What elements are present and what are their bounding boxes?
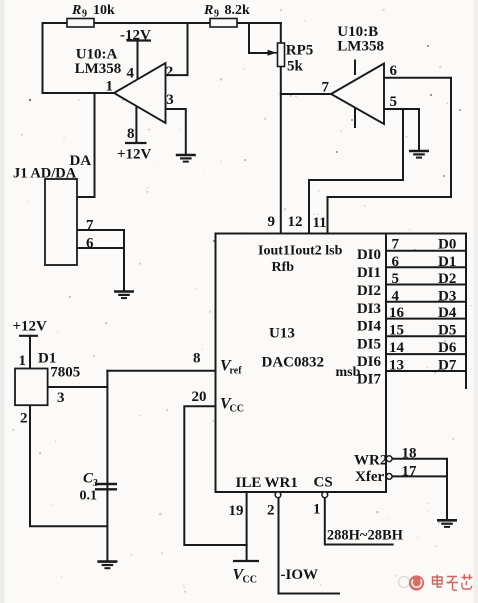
wire U10:A pin2 to rail — [166, 23, 188, 75]
svg-text:msb: msb — [336, 365, 361, 380]
op-amp U10:B triangle — [331, 64, 384, 125]
svg-text:12: 12 — [288, 214, 303, 230]
wire top rail R9s — [43, 22, 281, 24]
svg-text:2: 2 — [267, 503, 275, 519]
wire data row line 8 — [386, 370, 466, 372]
svg-text:ref: ref — [230, 366, 243, 377]
label Vcc pin20 — [220, 396, 244, 415]
wire +12V to 7805 pin1 — [29, 336, 31, 369]
wire RP5 stem top — [280, 23, 282, 43]
potentiometer RP5 body — [278, 43, 285, 67]
svg-text:4: 4 — [127, 66, 135, 82]
wire data row line 4 — [386, 301, 466, 303]
label C3 — [83, 471, 98, 490]
svg-text:DI0: DI0 — [357, 247, 381, 263]
svg-text:DI2: DI2 — [357, 283, 381, 299]
svg-text:5k: 5k — [287, 59, 304, 75]
svg-text:DI1: DI1 — [357, 265, 381, 281]
svg-text:6: 6 — [392, 254, 400, 270]
wire data row line 1 — [386, 250, 466, 252]
wire DA drop — [77, 93, 95, 197]
pin bubble WR2 — [386, 456, 392, 462]
wire U10:A pin3 — [166, 109, 186, 155]
wire C3 branch to ground — [106, 371, 108, 562]
wire DAC WR2 pin18 — [392, 459, 447, 520]
svg-text:Rfb: Rfb — [272, 260, 295, 275]
svg-text:15: 15 — [389, 323, 404, 339]
wire Vref to DAC pin8 — [107, 370, 215, 372]
svg-text:J1 AD/DA: J1 AD/DA — [13, 166, 77, 182]
op-amp U10:A triangle — [114, 63, 166, 123]
wire 7805 pin2 — [30, 405, 107, 526]
wire 7805 pin3 — [48, 386, 108, 388]
svg-text:CC: CC — [230, 404, 244, 415]
power +12V bar (op-amp) — [125, 142, 147, 144]
svg-text:20: 20 — [192, 389, 207, 405]
svg-text:6: 6 — [86, 236, 94, 252]
svg-text:+12V: +12V — [117, 147, 152, 163]
svg-text:DI4: DI4 — [357, 318, 382, 334]
wire data row line 6 — [386, 335, 466, 337]
watermark logo — [399, 575, 425, 590]
wire DAC Xfer pin17 — [392, 475, 447, 477]
DAC U13 body — [216, 234, 387, 493]
svg-text:D5: D5 — [438, 323, 456, 339]
svg-text:7805: 7805 — [50, 365, 80, 381]
wire data row line 5 — [386, 318, 466, 320]
svg-text:LM358: LM358 — [337, 39, 384, 55]
svg-text:CS: CS — [314, 475, 333, 491]
label VCC bottom — [233, 567, 257, 586]
svg-text:19: 19 — [229, 503, 244, 519]
svg-text:DI7: DI7 — [357, 371, 382, 387]
wire data row line 7 — [386, 353, 466, 355]
svg-text:1: 1 — [313, 502, 321, 518]
svg-text:D6: D6 — [438, 340, 457, 356]
svg-text:+12V: +12V — [13, 319, 48, 335]
label R9 8.2k — [203, 3, 250, 20]
svg-text:U13: U13 — [269, 326, 295, 342]
wire J1 pin7 — [77, 229, 124, 231]
ground under C3 — [97, 562, 117, 569]
svg-text:5: 5 — [392, 271, 400, 287]
svg-text:9: 9 — [214, 9, 219, 20]
resistor R9 10k body — [67, 19, 94, 28]
svg-text:7: 7 — [86, 218, 94, 234]
ground under U10:B pin5 — [409, 151, 429, 158]
svg-text:3: 3 — [93, 478, 98, 489]
wire J1 pins to ground — [123, 230, 125, 291]
svg-text:6: 6 — [390, 63, 398, 79]
wire DAC WR1 pin2 to IOW — [279, 498, 340, 594]
wire U10:A pin4 — [137, 41, 139, 80]
svg-text:ILE: ILE — [236, 475, 262, 491]
ground WR2/Xfer — [437, 520, 457, 527]
wire data row line 2 — [386, 266, 466, 268]
label R9 10k — [71, 3, 115, 20]
svg-text:1: 1 — [19, 353, 27, 369]
wire U10:B V+ stub — [354, 61, 356, 75]
power VCC bar (bottom) — [233, 560, 259, 562]
svg-text:RP5: RP5 — [286, 43, 314, 59]
svg-text:288H~28BH: 288H~28BH — [327, 528, 404, 544]
svg-text:Xfer: Xfer — [355, 469, 384, 485]
svg-text:CC: CC — [243, 575, 257, 586]
svg-text:D1: D1 — [438, 254, 456, 270]
svg-text:14: 14 — [389, 340, 405, 356]
svg-text:8.2k: 8.2k — [225, 3, 251, 18]
svg-text:D3: D3 — [438, 289, 456, 305]
svg-text:9: 9 — [82, 9, 87, 20]
svg-text:16: 16 — [389, 305, 405, 321]
ground under J1 — [114, 292, 134, 299]
pin bubble CS — [322, 492, 328, 498]
wire J1 pin6 — [77, 247, 124, 249]
svg-text:WR2: WR2 — [354, 453, 387, 469]
svg-text:DI5: DI5 — [357, 336, 381, 352]
label Vref — [220, 358, 242, 377]
svg-text:0.1: 0.1 — [80, 489, 98, 504]
svg-text:8: 8 — [127, 126, 135, 142]
svg-text:DI3: DI3 — [357, 301, 381, 317]
wire DAC pin19 ILE — [246, 492, 248, 561]
svg-text:LM358: LM358 — [75, 61, 122, 77]
wire pin5 net to DAC pin12 — [309, 109, 403, 234]
svg-text:DI6: DI6 — [357, 354, 382, 370]
wire U10:B V- stub — [354, 109, 356, 128]
wire U10:A pin8 — [135, 107, 137, 144]
svg-text:D7: D7 — [438, 358, 457, 374]
svg-text:11: 11 — [313, 215, 327, 231]
svg-text:13: 13 — [389, 358, 404, 374]
wire U10:B pin5 to ground — [384, 109, 419, 151]
wire RP5 wiper — [249, 23, 269, 53]
wire data row line 3 — [386, 284, 466, 286]
svg-text:R: R — [71, 3, 81, 18]
resistor R9 8.2k body — [210, 19, 237, 28]
wire RP5 bottom to DAC pin9 — [280, 67, 282, 234]
capacitor C3 plates — [95, 484, 117, 489]
svg-text:9: 9 — [268, 214, 276, 230]
svg-text:18: 18 — [402, 446, 417, 462]
ground under U10:A pin3 — [176, 155, 196, 162]
wire data bus right vertical — [465, 234, 467, 389]
svg-text:7: 7 — [392, 237, 400, 253]
svg-text:2: 2 — [166, 64, 174, 80]
svg-text:5: 5 — [390, 94, 398, 110]
wire U10:A output — [43, 92, 115, 94]
svg-text:17: 17 — [402, 464, 418, 480]
power +12V bar (7805) — [19, 335, 38, 337]
svg-text:1: 1 — [106, 79, 114, 95]
potentiometer RP5 wiper arrow — [268, 50, 277, 56]
svg-text:D4: D4 — [438, 305, 457, 321]
svg-text:Iout1Iout2 lsb: Iout1Iout2 lsb — [258, 244, 343, 259]
wire DAC CS pin1 — [325, 498, 393, 545]
svg-text:-IOW: -IOW — [281, 567, 319, 583]
regulator D1 7805 body — [15, 369, 48, 406]
svg-text:7: 7 — [322, 80, 330, 96]
svg-text:WR1: WR1 — [265, 475, 298, 491]
pin bubble WR1 — [275, 492, 281, 498]
svg-text:D0: D0 — [438, 237, 456, 253]
svg-text:3: 3 — [166, 92, 174, 108]
power -12V bar — [127, 39, 152, 41]
connector J1 body — [45, 179, 77, 265]
watermark text 电子芯 — [433, 574, 473, 590]
svg-text:D2: D2 — [438, 271, 456, 287]
wire data row line 0 — [386, 233, 466, 235]
svg-text:R: R — [203, 3, 213, 18]
wire left feedback vertical — [42, 23, 44, 93]
svg-text:3: 3 — [57, 390, 65, 406]
wire DAC pin20 Vcc — [184, 406, 246, 545]
svg-text:4: 4 — [392, 289, 400, 305]
svg-text:10k: 10k — [93, 3, 115, 18]
pin bubble Xfer — [386, 474, 392, 480]
svg-text:8: 8 — [193, 351, 201, 367]
svg-text:-12V: -12V — [120, 28, 151, 44]
svg-text:DAC0832: DAC0832 — [262, 355, 325, 371]
wire U10:B output — [281, 93, 331, 95]
wire U10:B pin6 to DAC pin11 — [328, 78, 452, 234]
svg-text:2: 2 — [20, 411, 28, 427]
